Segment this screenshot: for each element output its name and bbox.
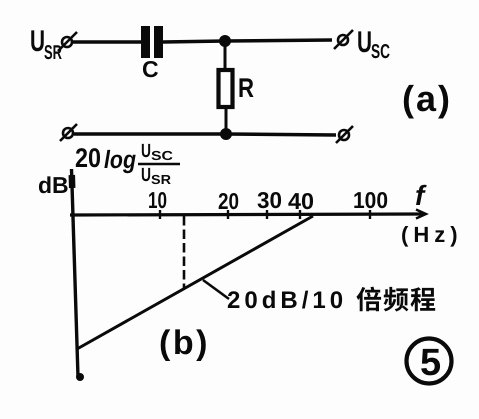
label decade CJK 程 xyxy=(411,287,436,311)
resistor R xyxy=(219,44,233,131)
svg-text:R: R xyxy=(238,73,254,103)
svg-text:SR: SR xyxy=(151,172,172,187)
svg-text:(b): (b) xyxy=(159,324,210,362)
svg-text:20: 20 xyxy=(218,188,239,214)
svg-text:C: C xyxy=(142,56,159,82)
svg-text:30: 30 xyxy=(257,187,282,213)
label decade CJK 频 xyxy=(384,287,409,312)
svg-text:U: U xyxy=(141,141,151,162)
terminal input top U_SR xyxy=(58,32,77,51)
svg-text:40: 40 xyxy=(288,188,314,214)
label U_SR xyxy=(30,25,62,64)
svg-text:U: U xyxy=(141,165,151,186)
y-axis xyxy=(72,169,79,377)
svg-text:SC: SC xyxy=(371,41,390,63)
svg-text:SR: SR xyxy=(44,42,62,64)
terminal output top U_SC xyxy=(334,30,353,49)
wire input terminal to capacitor xyxy=(72,40,141,44)
wire bottom right xyxy=(226,134,336,135)
wire capacitor to node A xyxy=(163,41,225,42)
figure number circle xyxy=(407,339,452,384)
x-axis ticks xyxy=(160,210,370,219)
terminal input bottom xyxy=(60,124,77,141)
dashed cutoff line xyxy=(183,216,186,289)
svg-text:(Hz): (Hz) xyxy=(401,222,463,247)
x-axis with arrow xyxy=(70,210,426,219)
label U_SC xyxy=(357,26,390,63)
label decade CJK 倍 xyxy=(356,287,381,312)
svg-text:100: 100 xyxy=(353,187,388,213)
svg-text:10: 10 xyxy=(148,187,167,213)
svg-text:(a): (a) xyxy=(402,78,452,119)
wire bottom left xyxy=(74,132,226,136)
wire node A to output terminal xyxy=(225,40,332,41)
terminal output bottom xyxy=(336,126,353,143)
fraction bar xyxy=(138,163,180,166)
node A junction dot xyxy=(219,35,231,47)
svg-text:SC: SC xyxy=(151,148,174,163)
slope line 20dB/decade xyxy=(77,216,313,349)
y-axis bottom dot xyxy=(76,373,84,381)
axis label 20 log Usc/Usr xyxy=(75,141,174,187)
svg-text:log: log xyxy=(104,146,136,174)
svg-text:20dB/10: 20dB/10 xyxy=(227,287,347,314)
svg-text:U: U xyxy=(30,25,45,58)
node B junction dot xyxy=(220,128,232,140)
capacitor C xyxy=(141,26,163,58)
svg-text:U: U xyxy=(357,26,372,59)
svg-text:5: 5 xyxy=(420,342,441,384)
svg-text:dB: dB xyxy=(38,172,69,198)
svg-text:20: 20 xyxy=(75,143,101,173)
callout leader line xyxy=(203,280,229,299)
